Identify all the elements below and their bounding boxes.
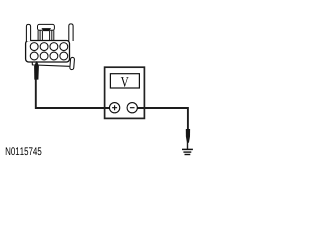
connector latch neck — [42, 31, 49, 41]
connector side wing lock — [70, 57, 75, 69]
wire from voltmeter negative lead to ground probe — [137, 108, 188, 130]
voltmeter display window — [110, 74, 139, 88]
ground lead stub — [187, 143, 189, 150]
connector left mounting ear — [26, 24, 30, 41]
test probe at connector pin (black) — [34, 61, 39, 79]
connector right mounting ear — [69, 24, 73, 41]
wire from connector probe to voltmeter positive lead — [36, 79, 111, 108]
figure number label N0115745 — [6, 147, 42, 155]
connector latch cap — [38, 24, 55, 30]
connector C1 body — [26, 41, 70, 63]
connector pin cavities row 1 — [30, 43, 68, 51]
ground probe (black) — [186, 129, 190, 143]
voltmeter positive terminal — [109, 103, 119, 113]
connector latch left leg — [38, 30, 40, 40]
voltmeter negative terminal — [127, 103, 137, 113]
voltmeter V label — [121, 77, 129, 87]
connector latch button (black trapezoid) — [42, 28, 52, 31]
connector lower skirt line — [32, 62, 69, 66]
connector pin cavities row 2 — [30, 52, 68, 60]
voltmeter V1 outer case — [105, 67, 145, 118]
ground symbol — [182, 149, 193, 154]
connector latch right leg — [52, 30, 54, 40]
